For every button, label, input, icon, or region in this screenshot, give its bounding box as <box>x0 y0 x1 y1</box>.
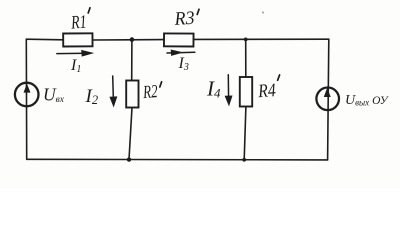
svg-text:I2: I2 <box>85 86 99 107</box>
source Uvyx circle <box>316 88 339 111</box>
label R1' <box>70 8 90 34</box>
source Uvx arrow <box>24 84 31 93</box>
wire top-left segment <box>26 38 63 41</box>
svg-text:I3: I3 <box>178 55 189 73</box>
arrow I1 current direction <box>57 52 88 54</box>
arrow I2 current direction <box>112 76 115 101</box>
label R2' <box>142 82 162 103</box>
wire left vertical <box>25 39 27 159</box>
arrow I4 current direction <box>227 75 229 100</box>
node C bottom junction <box>127 157 131 161</box>
svg-text:R2: R2 <box>142 82 159 103</box>
wire R2 branch lower <box>129 108 132 160</box>
arrow I3 current direction <box>167 51 195 54</box>
svg-text:UвыхОУ: UвыхОУ <box>345 93 389 108</box>
wire R2 branch upper <box>131 40 133 81</box>
svg-text:R1: R1 <box>70 12 88 34</box>
node A top junction <box>130 37 135 42</box>
svg-text:I1: I1 <box>70 57 81 75</box>
svg-text:R4: R4 <box>257 80 277 102</box>
wire top middle segment <box>93 39 165 41</box>
label R4' <box>257 75 280 102</box>
svg-text:R3: R3 <box>173 8 195 30</box>
resistor R1 <box>63 33 92 46</box>
wire top right segment <box>194 38 329 40</box>
wire R4 branch upper <box>245 39 247 77</box>
svg-text:Uвх: Uвх <box>43 84 65 105</box>
resistor R4 <box>240 77 252 107</box>
wire right vertical <box>328 39 329 160</box>
node D bottom junction <box>242 158 246 162</box>
source Uvx circle <box>15 83 39 107</box>
resistor R3 <box>164 33 194 46</box>
label R3' <box>173 8 199 30</box>
node B top junction <box>244 38 248 42</box>
wire R4 branch lower <box>244 107 246 160</box>
resistor R2 <box>126 81 138 108</box>
source Uvyx arrow <box>324 88 331 97</box>
svg-text:I4: I4 <box>206 77 221 101</box>
speck artifact <box>262 12 264 14</box>
wire bottom <box>27 158 328 161</box>
